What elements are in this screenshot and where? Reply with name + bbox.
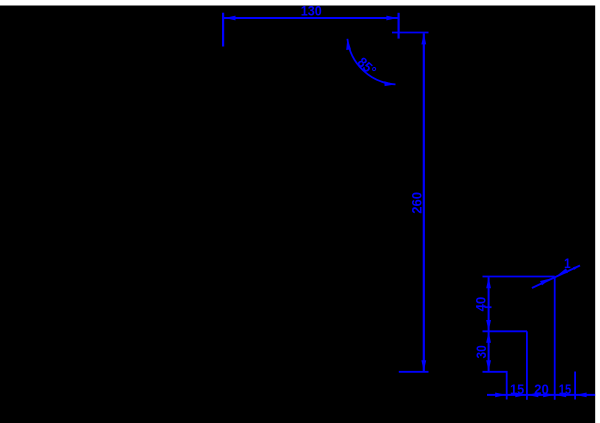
svg-text:40: 40 [473,296,489,311]
svg-text:30: 30 [473,345,489,358]
svg-text:15: 15 [559,381,572,397]
svg-text:260: 260 [409,192,425,214]
svg-text:1: 1 [564,255,571,271]
svg-text:15: 15 [510,381,524,397]
svg-text:20: 20 [534,381,549,397]
